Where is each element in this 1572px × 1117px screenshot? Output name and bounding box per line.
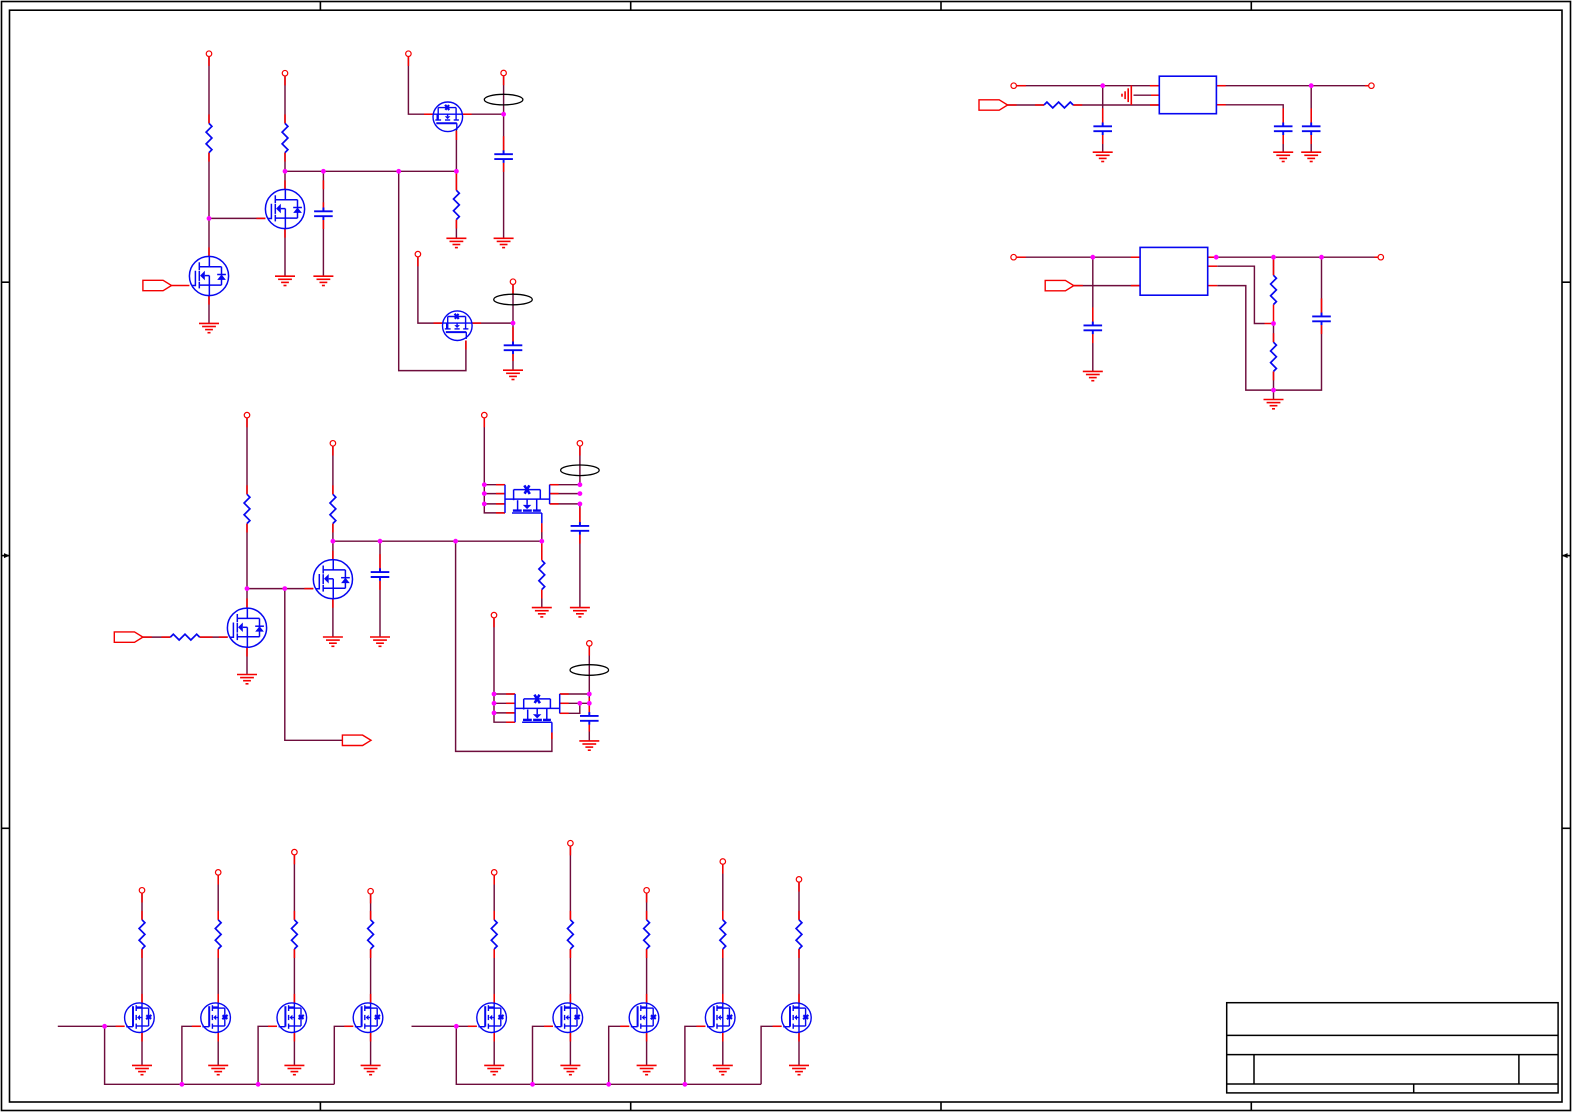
- resistor R5: [1271, 275, 1277, 304]
- junction Q8 l3: [492, 711, 497, 716]
- wire C8 to node J: [1274, 325, 1322, 390]
- pin lead C8 bottom: [1321, 325, 1323, 334]
- pin stubs Q7 left: [484, 418, 505, 513]
- pin leads R14: [370, 894, 372, 958]
- transistor QB3: [277, 1003, 307, 1033]
- junction node F: [1309, 83, 1314, 88]
- pin leads C4: [1102, 108, 1104, 126]
- output flag OUT1: [342, 735, 371, 745]
- wire U2 pin5 to node J: [1217, 286, 1273, 391]
- terminal P15: [491, 612, 497, 618]
- wire QB8 source to ground: [722, 1033, 724, 1066]
- wire P4 through bead to node C: [503, 76, 505, 114]
- resistor R16: [568, 920, 574, 949]
- pin lead QB8 source: [722, 1033, 724, 1042]
- wire QB4 source to ground: [370, 1033, 372, 1066]
- terminal P11: [244, 412, 250, 418]
- pin leads R13: [293, 855, 295, 958]
- pin leads R11: [141, 894, 143, 959]
- wire node D to C3: [512, 323, 514, 345]
- junction gate bus left: [102, 1024, 107, 1029]
- junction Q7 l3: [482, 502, 487, 507]
- terminal PB1: [139, 888, 145, 894]
- ground under Q1: [199, 323, 219, 332]
- wire R14 to QB4 drain: [370, 949, 372, 1003]
- resistor R14: [368, 920, 374, 949]
- wire PB7 to R17: [646, 894, 648, 920]
- wire C5 to ground: [1282, 135, 1284, 152]
- resistor R17: [644, 920, 650, 949]
- transistor QB5: [477, 1003, 507, 1033]
- transistor QB6: [553, 1003, 583, 1033]
- wire QB3 source to ground: [293, 1033, 295, 1066]
- pin lead Q4 source: [465, 341, 467, 350]
- pin lead C5 bottom: [1282, 135, 1284, 144]
- ground under C4: [1093, 152, 1113, 161]
- junction node A: [207, 216, 212, 221]
- junction riser QB8: [683, 1082, 688, 1087]
- ground under R10: [532, 608, 552, 617]
- wire Q4 drain to node D: [472, 322, 513, 324]
- wire node A to Q2 gate: [209, 217, 265, 219]
- pin lead QB7 source: [646, 1033, 648, 1042]
- wire P5 to Q4 gate: [418, 257, 443, 323]
- wire R13 to QB3 drain: [293, 949, 295, 1003]
- junction Q7 l1: [482, 482, 487, 487]
- filter block U1: [1159, 76, 1216, 114]
- wire C3 to ground: [512, 354, 514, 370]
- wire PB3 to R13: [293, 855, 295, 920]
- pin leads R9: [332, 447, 334, 533]
- transistor Q1: [189, 256, 228, 295]
- capacitor C2: [494, 150, 513, 163]
- ground under R3: [446, 238, 466, 247]
- terminal P13: [482, 412, 488, 418]
- pin lead Q5 source: [246, 647, 248, 656]
- pin lead Q6 drain: [332, 551, 334, 560]
- transistor QB2: [201, 1003, 231, 1033]
- wire U1 out to P8: [1216, 85, 1368, 87]
- pin lead Q8 source: [551, 733, 553, 740]
- transistor QB1: [125, 1003, 155, 1033]
- pin lead C3 bottom: [512, 354, 514, 361]
- junction bus-R3: [454, 169, 459, 174]
- wire stub Q8 s3: [494, 712, 515, 714]
- pin lead C9 bottom: [379, 581, 381, 590]
- pin stubs Q7 right: [550, 485, 559, 504]
- wire gate drop left: [105, 1026, 335, 1084]
- ground under Q5: [237, 675, 257, 684]
- wire R11 to QB1 drain: [141, 949, 143, 1003]
- transistor QB7: [629, 1003, 659, 1033]
- transistor QB4: [353, 1003, 383, 1033]
- pin lead QB6 drain: [569, 994, 571, 1003]
- wire R1 to node A and Q1 drain: [208, 153, 210, 257]
- resistor R4: [1044, 102, 1073, 108]
- input flag IN4: [114, 632, 143, 642]
- pin leads R16: [569, 846, 571, 958]
- pin lead Q7 source: [541, 523, 543, 532]
- ground under C7: [1083, 371, 1103, 380]
- wire P14 through bead to Q7: [579, 447, 581, 485]
- pin lead Q2 source: [284, 229, 286, 238]
- pin lead QB2 drain: [217, 994, 219, 1003]
- junction node J: [1271, 388, 1276, 393]
- wire P7 to U1 pin1: [1017, 85, 1159, 87]
- terminal P10: [1378, 254, 1384, 260]
- resistor R13: [292, 920, 298, 949]
- pin leads U1 right: [1216, 86, 1368, 105]
- wire R15 to QB5 drain: [493, 949, 495, 1003]
- title block (empty): [1227, 1003, 1558, 1093]
- terminal P2: [282, 70, 288, 76]
- terminal P12: [330, 441, 336, 447]
- pin lead QB1 drain: [141, 994, 143, 1003]
- pin lead C11 bottom: [588, 725, 590, 732]
- wire stub Q7 d2: [550, 493, 580, 495]
- pin lead Q1 gate: [172, 285, 190, 287]
- terminal P1: [206, 51, 212, 57]
- junction node C: [501, 112, 506, 117]
- pin leads C11: [588, 698, 590, 716]
- resistor R11: [139, 920, 145, 949]
- pin lead Q2 gate: [209, 218, 265, 256]
- pin lead node I left: [1265, 323, 1274, 325]
- pin lead P14: [579, 447, 581, 456]
- terminal PB4: [368, 888, 374, 894]
- input flag IN2: [979, 100, 1008, 110]
- pin leads R17: [646, 894, 648, 959]
- wire P12 to R9: [332, 447, 334, 495]
- pin stubs Q8 right: [560, 694, 569, 713]
- pin lead Q1 source: [208, 296, 210, 305]
- junction node K: [245, 586, 250, 591]
- wire C10 to ground: [579, 535, 581, 608]
- wire C9 to ground: [379, 581, 381, 637]
- pin leads R1: [208, 57, 210, 162]
- junction Q7 l2: [482, 491, 487, 496]
- wire riser QB8: [685, 1026, 706, 1084]
- pin leads C8: [1321, 298, 1323, 316]
- junction bus-vert: [396, 169, 401, 174]
- terminal P3: [406, 51, 412, 57]
- pin lead QB9 drain: [798, 994, 800, 1003]
- wire QB2 source to ground: [217, 1033, 219, 1066]
- wire Q7 source to bus: [541, 523, 543, 541]
- wire R3 to ground: [455, 220, 457, 239]
- ground under C11: [579, 741, 599, 750]
- wire P9 to U2 pin1: [1017, 256, 1140, 258]
- capacitor C10: [571, 522, 590, 535]
- wire stub Q8 s2: [494, 702, 515, 704]
- terminal P4: [501, 70, 507, 76]
- resistor R12: [215, 920, 221, 949]
- wire R6 to node J: [1273, 371, 1275, 399]
- ground under QB7: [637, 1065, 657, 1074]
- resistor R6: [1271, 342, 1277, 371]
- resistor R3: [454, 190, 460, 219]
- transistor Q7 (dual-fet pack): [505, 485, 550, 524]
- junction node I: [1271, 321, 1276, 326]
- wire PB4 to R14: [370, 894, 372, 919]
- wire C6 to ground: [1310, 135, 1312, 152]
- ferrite bead ellipse FB1: [484, 94, 523, 105]
- pin lead Q5 drain: [246, 598, 248, 607]
- pin leads R3: [455, 171, 457, 228]
- pin lead QB6 source: [569, 1033, 571, 1042]
- ground under Q2: [275, 276, 295, 285]
- wire R19 to QB9 drain: [798, 949, 800, 1003]
- junction bus-drop: [453, 539, 458, 544]
- pin lead QB7 drain: [646, 994, 648, 1003]
- wire riser QB9: [761, 1026, 782, 1084]
- pin leads C10: [579, 508, 581, 526]
- resistor R19: [796, 920, 802, 949]
- wire PB9 to R19: [798, 883, 800, 920]
- wire riser QB6: [533, 1026, 554, 1084]
- pin leads C7: [1092, 307, 1094, 325]
- wire bus down-around to Q4 source: [399, 171, 466, 370]
- wire riser QB7: [609, 1026, 630, 1084]
- pin leads R18: [722, 865, 724, 958]
- terminal PB5: [491, 870, 497, 876]
- ground under C1: [313, 276, 333, 285]
- pin lead Q5 gate: [219, 636, 228, 638]
- wire R9 to node L and Q6 drain: [332, 524, 334, 560]
- pin leads C6: [1310, 108, 1312, 126]
- wire stub Q7 s1: [484, 484, 505, 486]
- wire P6 through bead to node D: [512, 285, 514, 323]
- junction Q7 r1: [578, 482, 583, 487]
- pin leads U1 left: [1017, 86, 1159, 105]
- pin lead QB3 drain: [293, 994, 295, 1003]
- wire IN3 to U2 pin2: [1074, 285, 1140, 287]
- wire R18 to QB8 drain: [722, 949, 724, 1003]
- ground under QB5: [484, 1065, 504, 1074]
- wire QB5 source to ground: [493, 1033, 495, 1066]
- pin lead C7 bottom: [1092, 334, 1094, 343]
- wire R12 to QB2 drain: [217, 949, 219, 1003]
- junction node H3: [1319, 255, 1324, 260]
- pin lead Q2 drain: [284, 180, 286, 189]
- junction Q7 r2: [578, 491, 583, 496]
- terminal PB7: [644, 888, 650, 894]
- ground under QB4: [361, 1065, 381, 1074]
- wire stub Q7 s3: [484, 503, 505, 505]
- wire QB6 source to ground: [569, 1033, 571, 1066]
- capacitor C9: [371, 568, 390, 581]
- wire Q8 source loop to bus: [456, 541, 552, 751]
- pin lead C2 bottom: [503, 163, 505, 172]
- wire node K to Q6 gate: [247, 588, 313, 590]
- pin leads R10: [541, 541, 543, 598]
- junction bus-Q7 source: [539, 539, 544, 544]
- wire Q5 source to ground: [246, 647, 248, 674]
- wire QB1 source to ground: [141, 1033, 143, 1066]
- junction Q8 r2b: [577, 701, 582, 706]
- resistor R2: [282, 123, 288, 152]
- pin lead QB9 source: [798, 1033, 800, 1042]
- wire gate bus right group: [412, 1025, 477, 1027]
- wire riser QB4: [334, 1026, 353, 1084]
- wire R17 to QB7 drain: [646, 949, 648, 1003]
- transistor Q5: [227, 608, 266, 647]
- wire bus to C9: [379, 541, 381, 572]
- transistor QB9: [782, 1003, 812, 1033]
- pin lead P6: [512, 285, 514, 294]
- wire Q6 source to ground: [332, 599, 334, 637]
- wire node F to C6: [1310, 86, 1312, 127]
- transistor Q2: [265, 189, 304, 228]
- wire riser QB2: [182, 1026, 201, 1084]
- wire U1 pin4 to C5: [1216, 105, 1283, 127]
- ground under QB2: [208, 1065, 228, 1074]
- wire stub Q7 s2: [484, 493, 505, 495]
- wire R4 to U1 pin2: [1073, 104, 1159, 106]
- ground under R6: [1264, 400, 1284, 409]
- wire node E to C4: [1102, 86, 1104, 127]
- ground under C10: [570, 608, 590, 617]
- pin leads U2 right: [1208, 257, 1378, 285]
- pin leads R4: [1008, 104, 1083, 106]
- wire node to R3: [455, 171, 457, 190]
- wire P2 to R2: [284, 76, 286, 123]
- junction node H1: [1214, 255, 1219, 260]
- pin leads C1: [322, 180, 324, 211]
- wire node B bus right: [285, 170, 456, 172]
- junction Q8 l1: [492, 692, 497, 697]
- pin leads QB1-4 gates: [116, 1025, 354, 1027]
- capacitor C6: [1302, 123, 1321, 136]
- wire C4 to ground: [1102, 135, 1104, 152]
- wire U2 out to P10: [1208, 256, 1378, 258]
- wire PB8 to R18: [722, 865, 724, 920]
- wire stub Q8 s1: [494, 693, 515, 695]
- junction gate bus right: [454, 1024, 459, 1029]
- ground under QB3: [284, 1065, 304, 1074]
- ferrite bead ellipse FB3: [561, 465, 600, 476]
- wire P11 to R7: [246, 418, 248, 494]
- pin lead QB4 drain: [370, 994, 372, 1003]
- wire node C to C2: [503, 114, 505, 154]
- wire C11 to ground: [588, 725, 590, 741]
- resistor R7: [244, 494, 250, 523]
- pin lead QB2 source: [217, 1033, 219, 1042]
- wire P13 down pin column: [484, 418, 505, 513]
- ground under QB8: [713, 1065, 733, 1074]
- pin lead QB8 drain: [722, 994, 724, 1003]
- junction Q8 l2: [492, 701, 497, 706]
- wire R8 to Q5 gate: [200, 636, 228, 638]
- pin lead Q6 gate: [304, 588, 313, 590]
- wire R7 to node K and Q5 drain: [246, 524, 248, 608]
- transistor Q8 (dual-fet pack): [515, 694, 560, 733]
- wire stub Q7 d1: [550, 484, 580, 486]
- transistor Q6: [313, 560, 352, 599]
- wire Q7 node down to C10: [579, 504, 581, 526]
- wire stub Q8 d2: [560, 702, 590, 704]
- input flag IN3: [1045, 280, 1074, 290]
- wire C7 to ground: [1092, 334, 1094, 371]
- ground under C9: [370, 637, 390, 646]
- junction node H2: [1271, 255, 1276, 260]
- wire P1 to R1: [208, 57, 210, 124]
- wire U1 gnd pin to chassis: [1134, 94, 1152, 96]
- pin leads R19: [798, 883, 800, 958]
- wire PB5 to R15: [493, 876, 495, 920]
- terminal P5: [415, 251, 421, 257]
- wire U2 fb pin to node I: [1217, 266, 1264, 323]
- wire PB1 to R11: [141, 894, 143, 920]
- pin stubs Q8 left: [494, 618, 515, 722]
- filter block U2: [1140, 247, 1208, 295]
- wire bus to R10: [541, 541, 543, 559]
- pin lead Q6 source: [332, 599, 334, 608]
- pin lead C10 bottom: [579, 535, 581, 544]
- junction Q8 r2: [587, 701, 592, 706]
- pin leads R6: [1273, 333, 1275, 380]
- wire QB9 source to ground: [798, 1033, 800, 1066]
- ground under C3: [503, 370, 523, 379]
- pin leads R2: [284, 76, 286, 161]
- wire gate drop right: [456, 1026, 761, 1084]
- wire Q8 node down to C11: [588, 694, 590, 716]
- junction Q7 r3: [578, 502, 583, 507]
- terminal P7: [1011, 83, 1017, 89]
- ferrite bead ellipse FB4: [570, 665, 609, 676]
- wire R2 to node B: [284, 153, 286, 190]
- pin lead C1 bottom: [322, 220, 324, 229]
- wire R10 to ground: [541, 590, 543, 608]
- pin lead QB1 source: [141, 1033, 143, 1042]
- pin lead P16: [588, 647, 590, 656]
- capacitor C1: [314, 208, 333, 221]
- pin leads R7: [246, 418, 248, 532]
- capacitor C4: [1093, 123, 1112, 136]
- resistor R8: [170, 634, 199, 640]
- wire node H3 to C8: [1321, 257, 1323, 316]
- pin lead C6 bottom: [1310, 135, 1312, 144]
- terminal P16: [587, 641, 593, 647]
- capacitor C11: [580, 712, 599, 725]
- wire node to C1: [322, 171, 324, 211]
- ground under C6: [1301, 152, 1321, 161]
- junction riser QB7: [606, 1082, 611, 1087]
- wire stub Q8 d1: [560, 693, 590, 695]
- capacitor C8: [1312, 313, 1331, 326]
- terminal P6: [510, 279, 516, 285]
- terminal PB3: [292, 849, 298, 855]
- terminal P9: [1011, 254, 1017, 260]
- wire Q2 source to ground: [284, 229, 286, 277]
- wire P15 down pin column: [494, 618, 515, 722]
- pin leads C2: [503, 136, 505, 154]
- terminal PB8: [720, 859, 726, 865]
- wire PB2 to R12: [217, 876, 219, 920]
- junction node E: [1100, 83, 1105, 88]
- junction node D: [511, 321, 516, 326]
- pin leads C3: [512, 327, 514, 345]
- ground under C2: [494, 238, 514, 247]
- resistor R1: [206, 123, 212, 152]
- ground under QB9: [789, 1065, 809, 1074]
- wire R16 to QB6 drain: [569, 949, 571, 1003]
- wire Q3 source to node: [455, 129, 457, 171]
- junction node G: [1090, 255, 1095, 260]
- wire Q3 drain to node C: [463, 113, 504, 115]
- wire PB6 to R16: [569, 846, 571, 919]
- junction node B: [283, 169, 288, 174]
